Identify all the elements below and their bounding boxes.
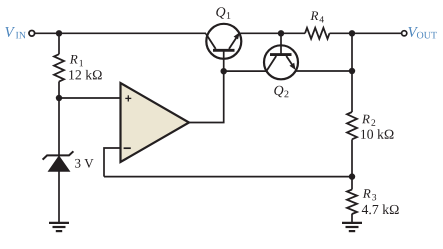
node E (feedback junction) — [349, 173, 355, 179]
resistor R1 — [54, 54, 64, 81]
label R3 — [363, 189, 371, 198]
node B (R1 / zener / op-amp noninverting junction) — [56, 95, 62, 101]
wire node E to R3 — [351, 177, 353, 190]
label VIN — [5, 27, 15, 37]
ground (right) — [342, 223, 362, 231]
transistor Q1 — [206, 24, 241, 71]
wire node A down to R1 — [58, 33, 60, 54]
wire R2 to node E — [351, 139, 353, 176]
wire node C to Q2 collector — [224, 70, 267, 72]
wire node G to VOUT terminal — [352, 32, 402, 34]
node C (Q1 base / op-amp output junction) — [221, 68, 227, 74]
wire op-amp inverting input stub — [104, 148, 121, 177]
label R2 — [362, 115, 370, 124]
wire zener to ground — [58, 171, 60, 222]
wire op-amp output to node C — [189, 71, 224, 122]
label R1 value 12 kOhm — [69, 70, 101, 80]
wire R1 to node B — [58, 82, 60, 99]
transistor Q2 — [264, 33, 298, 79]
label R4 — [310, 11, 318, 20]
zener diode cathode bar — [43, 151, 74, 159]
resistor R4 — [305, 28, 330, 39]
wire feedback run to node E — [104, 176, 352, 178]
label R2 value 10 kOhm — [361, 129, 393, 139]
label R1 — [70, 55, 78, 64]
wire Q2 emitter to node F — [295, 70, 352, 72]
wire node G down to R2 — [351, 33, 353, 112]
wire node B down to zener — [58, 98, 60, 155]
label VOUT — [408, 27, 418, 37]
node D (Q2 base junction) — [278, 30, 284, 36]
label zener value 3 V — [75, 159, 93, 168]
op-amp plus input marking — [125, 95, 131, 101]
terminal VOUT — [402, 31, 407, 36]
terminal VIN — [29, 31, 35, 37]
op-amp U1 — [121, 83, 190, 162]
label R3 value 4.7 kOhm — [362, 204, 399, 214]
ground (left) — [49, 223, 69, 231]
wire VIN terminal to node A — [35, 32, 59, 34]
wire R4 to node G — [330, 32, 353, 34]
node G (VOUT junction) — [349, 30, 355, 36]
wire R3 to ground — [351, 214, 353, 223]
node F (Q2 emitter / output column junction) — [349, 68, 355, 74]
op-amp minus input marking — [124, 147, 131, 149]
wire node A to Q1 collector — [59, 32, 206, 34]
node A (VIN junction) — [56, 30, 62, 36]
resistor R2 — [347, 112, 357, 139]
label Q2 — [274, 86, 283, 98]
zener diode anode triangle — [49, 156, 70, 171]
label Q1 — [216, 7, 225, 19]
wire node D to R4 — [281, 32, 305, 34]
wire node B to op-amp noninverting input — [59, 97, 121, 99]
resistor R3 — [347, 190, 357, 214]
wire Q1 emitter to node D — [240, 32, 282, 34]
